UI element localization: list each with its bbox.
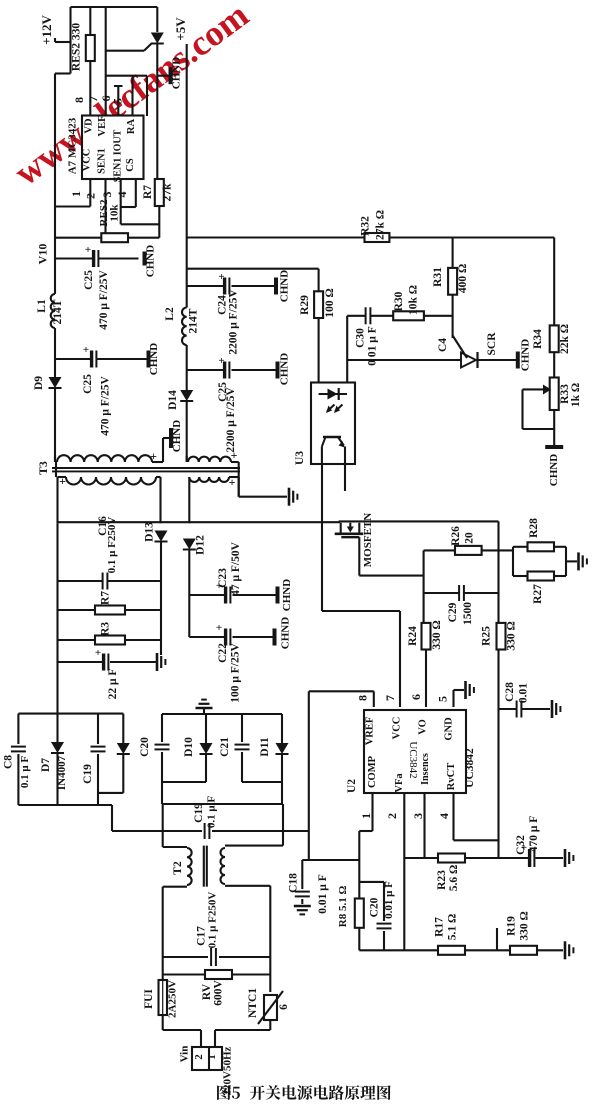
svg-text:R34: R34 xyxy=(532,329,544,349)
svg-text:R28: R28 xyxy=(528,518,540,538)
svg-text:D7: D7 xyxy=(40,758,52,772)
svg-text:5: 5 xyxy=(436,696,450,702)
svg-text:214T: 214T xyxy=(188,308,200,333)
svg-text:4: 4 xyxy=(437,813,451,819)
svg-text:+5V: +5V xyxy=(173,17,188,41)
svg-text:CHND: CHND xyxy=(548,454,560,486)
svg-text:VCC: VCC xyxy=(392,717,403,740)
svg-text:D14: D14 xyxy=(167,390,179,410)
svg-text:U2: U2 xyxy=(346,779,358,793)
svg-text:22k Ω: 22k Ω xyxy=(559,324,571,354)
svg-text:330 Ω: 330 Ω xyxy=(431,620,443,649)
svg-text:R31: R31 xyxy=(432,267,444,287)
svg-text:220V50Hz: 220V50Hz xyxy=(222,1046,234,1095)
svg-text:47 μ F/50V: 47 μ F/50V xyxy=(230,541,242,595)
svg-text:0.01: 0.01 xyxy=(518,683,530,703)
svg-text:10k Ω: 10k Ω xyxy=(408,285,420,315)
svg-text:V10: V10 xyxy=(36,244,50,265)
svg-text:3: 3 xyxy=(100,192,114,198)
svg-text:C23: C23 xyxy=(217,568,229,588)
svg-text:C19: C19 xyxy=(82,764,94,784)
svg-text:3: 3 xyxy=(411,813,425,819)
svg-text:2200 μ F/25V: 2200 μ F/25V xyxy=(228,289,240,355)
svg-text:RV: RV xyxy=(201,983,213,1000)
svg-text:2: 2 xyxy=(385,813,399,819)
svg-text:8: 8 xyxy=(72,97,86,103)
svg-text:600V: 600V xyxy=(213,980,225,1006)
svg-text:7: 7 xyxy=(383,695,397,701)
svg-text:L1: L1 xyxy=(36,299,48,313)
svg-text:C8: C8 xyxy=(3,755,15,769)
svg-text:R7: R7 xyxy=(142,185,154,199)
svg-text:R17: R17 xyxy=(434,917,446,937)
svg-text:+12V: +12V xyxy=(39,14,54,44)
svg-text:+: + xyxy=(216,622,222,634)
svg-text:D11: D11 xyxy=(259,737,271,756)
svg-text:RvCT: RvCT xyxy=(446,763,457,790)
svg-text:2: 2 xyxy=(193,1054,205,1060)
svg-text:Insencs: Insencs xyxy=(420,753,431,785)
svg-text:CHND: CHND xyxy=(170,57,182,89)
svg-text:CHND: CHND xyxy=(279,353,291,385)
svg-text:0.1 μ F250V: 0.1 μ F250V xyxy=(106,517,118,574)
svg-text:470 μ F: 470 μ F xyxy=(528,816,540,853)
svg-text:CHND: CHND xyxy=(148,343,160,375)
svg-text:C20: C20 xyxy=(368,897,380,917)
svg-text:R26: R26 xyxy=(450,526,462,546)
svg-text:CHND: CHND xyxy=(280,617,292,649)
svg-text:C20: C20 xyxy=(139,737,151,757)
svg-text:CHND: CHND xyxy=(145,245,157,277)
svg-text:VO: VO xyxy=(418,719,429,735)
svg-text:COMP: COMP xyxy=(367,755,378,788)
svg-text:400 Ω: 400 Ω xyxy=(457,264,469,293)
svg-text:+: + xyxy=(231,448,238,462)
svg-text:UC3842: UC3842 xyxy=(407,741,419,778)
svg-text:FUI: FUI xyxy=(143,989,155,1009)
svg-text:R23: R23 xyxy=(436,870,448,890)
svg-text:CHND: CHND xyxy=(278,270,290,302)
svg-text:SEN1 IOUT: SEN1 IOUT xyxy=(113,129,124,182)
svg-text:2200 μ F/25V: 2200 μ F/25V xyxy=(225,387,237,453)
svg-text:U3: U3 xyxy=(294,451,306,465)
svg-text:D12: D12 xyxy=(195,535,207,555)
svg-text:CS: CS xyxy=(125,158,136,172)
svg-text:UC3842: UC3842 xyxy=(464,748,476,788)
svg-text:4: 4 xyxy=(115,192,129,198)
svg-text:330 Ω: 330 Ω xyxy=(519,911,531,940)
svg-text:R30: R30 xyxy=(393,291,405,311)
svg-text:NTC1: NTC1 xyxy=(247,988,259,1018)
svg-text:CHND: CHND xyxy=(171,420,183,452)
svg-text:5.1 Ω: 5.1 Ω xyxy=(447,914,459,940)
svg-text:1: 1 xyxy=(206,1054,218,1060)
svg-text:1500: 1500 xyxy=(462,602,474,625)
svg-text:CHND: CHND xyxy=(281,579,293,611)
svg-text:R7: R7 xyxy=(100,591,112,605)
svg-text:Vin: Vin xyxy=(179,1046,191,1063)
svg-text:0.1 μ F250V: 0.1 μ F250V xyxy=(207,892,219,949)
svg-text:R32: R32 xyxy=(360,216,372,236)
svg-text:R29: R29 xyxy=(299,295,311,315)
svg-text:GND: GND xyxy=(444,717,455,741)
svg-text:20: 20 xyxy=(464,532,476,544)
svg-text:1: 1 xyxy=(69,191,83,197)
svg-text:22 μ F: 22 μ F xyxy=(107,669,119,700)
svg-text:C28: C28 xyxy=(504,682,516,702)
svg-text:R27: R27 xyxy=(532,584,544,604)
svg-text:CHND: CHND xyxy=(520,339,532,371)
svg-text:0.01 μ F: 0.01 μ F xyxy=(383,881,395,919)
svg-text:D10: D10 xyxy=(183,737,195,757)
svg-text:C4: C4 xyxy=(437,338,449,352)
svg-text:C18: C18 xyxy=(288,873,300,893)
svg-text:R24: R24 xyxy=(407,626,419,646)
svg-text:C21: C21 xyxy=(219,737,231,757)
svg-text:27k Ω: 27k Ω xyxy=(375,210,387,240)
svg-text:214T: 214T xyxy=(52,299,64,324)
svg-text:2A250V: 2A250V xyxy=(167,980,179,1018)
svg-text:R25: R25 xyxy=(481,626,493,646)
svg-text:8: 8 xyxy=(356,695,370,701)
svg-text:VCC: VCC xyxy=(82,149,93,172)
svg-text:C19: C19 xyxy=(193,803,205,823)
svg-text:1: 1 xyxy=(359,813,373,819)
svg-text:C22: C22 xyxy=(217,643,229,663)
svg-text:6: 6 xyxy=(278,1004,290,1010)
svg-text:T3: T3 xyxy=(38,461,50,475)
svg-text:6: 6 xyxy=(409,694,423,700)
svg-text:VFa: VFa xyxy=(394,773,405,793)
svg-text:C25: C25 xyxy=(82,374,94,394)
svg-text:470 μ F/25V: 470 μ F/25V xyxy=(100,376,112,436)
svg-text:RES2 330: RES2 330 xyxy=(71,23,83,71)
svg-text:7: 7 xyxy=(86,96,100,102)
svg-text:SCR: SCR xyxy=(486,332,498,356)
svg-text:D13: D13 xyxy=(144,522,156,542)
svg-text:VEF: VEF xyxy=(97,116,108,137)
svg-text:R8 5.1 Ω: R8 5.1 Ω xyxy=(337,886,349,928)
svg-text:C29: C29 xyxy=(447,602,459,622)
svg-text:10k: 10k xyxy=(109,204,121,222)
svg-text:+: + xyxy=(150,449,157,463)
svg-text:+: + xyxy=(85,244,91,256)
svg-text:100 Ω: 100 Ω xyxy=(324,288,336,317)
svg-text:+: + xyxy=(83,344,89,356)
svg-text:+: + xyxy=(95,647,101,659)
svg-text:330 Ω: 330 Ω xyxy=(506,621,518,650)
svg-text:C32: C32 xyxy=(515,835,527,855)
svg-text:470 μ F/25V: 470 μ F/25V xyxy=(98,270,110,330)
svg-text:SEN1: SEN1 xyxy=(97,148,108,174)
svg-text:VD: VD xyxy=(84,118,95,134)
svg-text:VREF: VREF xyxy=(365,717,376,746)
svg-text:R19: R19 xyxy=(506,916,518,936)
svg-text:IN4007: IN4007 xyxy=(56,755,68,790)
svg-text:0.01 μ F: 0.01 μ F xyxy=(317,874,329,913)
svg-text:RA: RA xyxy=(126,119,137,135)
svg-text:0.1 μ F: 0.1 μ F xyxy=(206,796,218,828)
svg-text:5: 5 xyxy=(111,98,125,104)
svg-text:R3: R3 xyxy=(100,622,112,636)
svg-text:100 μ F/25V: 100 μ F/25V xyxy=(230,643,242,703)
svg-text:+: + xyxy=(218,355,224,367)
svg-text:C30: C30 xyxy=(355,328,367,348)
svg-text:27k: 27k xyxy=(162,183,174,202)
svg-text:D9: D9 xyxy=(33,376,45,390)
svg-text:2: 2 xyxy=(84,193,98,199)
svg-text:0.1 μ F: 0.1 μ F xyxy=(19,756,31,788)
svg-text:+: + xyxy=(218,271,224,283)
svg-text:T2: T2 xyxy=(172,861,184,875)
svg-text:1k Ω: 1k Ω xyxy=(570,383,582,407)
svg-text:A7 MC3423: A7 MC3423 xyxy=(67,117,79,174)
svg-text:5.6 Ω: 5.6 Ω xyxy=(448,865,460,891)
svg-text:L2: L2 xyxy=(164,307,176,321)
svg-text:C25: C25 xyxy=(83,270,95,290)
